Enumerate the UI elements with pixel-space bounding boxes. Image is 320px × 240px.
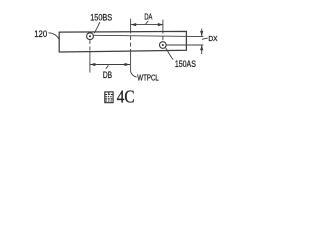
bar 120 (rectangle outline) (59, 31, 186, 52)
svg-text:150BS: 150BS (90, 13, 112, 24)
DX upper arrow (points down) (200, 31, 203, 36)
DA left arrow (131, 23, 137, 26)
svg-text:WTPCL: WTPCL (137, 73, 159, 82)
node 150BS (circle with dot) (87, 33, 94, 40)
lower extension wire at 150AS level (166, 44, 203, 46)
leader wire from 150AS node to label (166, 48, 174, 60)
DB label leader tick (106, 65, 109, 69)
leader wire from WTPCL line to label (130, 71, 136, 77)
node 150AS (circle with dot) (160, 42, 167, 49)
DX lower arrow (points up) (200, 45, 203, 50)
DA right tick (162, 20, 164, 30)
WTPCL dashed centerline (130, 30, 132, 53)
svg-text:150AS: 150AS (175, 59, 196, 70)
dashed wire down from 150BS (89, 40, 91, 52)
leader wire from 150BS label to node (94, 22, 100, 33)
wire from 150BS line below bar (DB left tick) (89, 52, 91, 73)
DX dimension wire lower (201, 45, 203, 54)
svg-text:120: 120 (34, 29, 47, 39)
DA dimension wire (131, 24, 164, 26)
svg-text:DA: DA (144, 12, 152, 21)
WTPCL line below bar (DB right tick) (130, 52, 132, 71)
leader wire from 120 to bar (49, 33, 60, 40)
DB dimension wire (90, 64, 130, 66)
DB right arrow (125, 63, 131, 66)
DA right arrow (158, 23, 164, 26)
upper extension wire at 150BS level (94, 35, 204, 36)
svg-text:DX: DX (208, 34, 217, 43)
DA label leader tick (146, 21, 149, 24)
DX label leader tick (202, 38, 208, 39)
dashed wire up from 150AS (162, 30, 164, 42)
DX dimension wire upper (201, 29, 203, 37)
svg-text:4C: 4C (117, 87, 135, 107)
DB left arrow (90, 63, 96, 66)
DA left tick (top of WTPCL line) (130, 19, 132, 30)
caption glyph (CJK character, drawn) (105, 92, 113, 103)
svg-text:DB: DB (103, 70, 112, 80)
